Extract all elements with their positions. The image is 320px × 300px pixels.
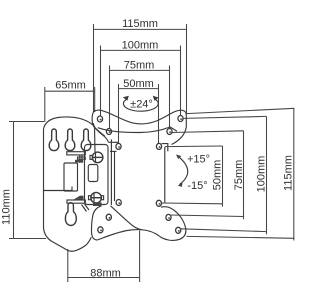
svg-text:-15°: -15° [187, 180, 207, 192]
svg-text:110mm: 110mm [1, 189, 13, 225]
svg-text:100mm: 100mm [255, 156, 267, 193]
svg-text:115mm: 115mm [122, 18, 158, 30]
svg-text:88mm: 88mm [90, 267, 121, 279]
svg-text:75mm: 75mm [233, 160, 245, 191]
svg-text:115mm: 115mm [282, 155, 294, 191]
svg-text:+15°: +15° [187, 154, 210, 166]
svg-text:100mm: 100mm [122, 39, 159, 51]
svg-text:65mm: 65mm [55, 80, 86, 92]
svg-text:±24°: ±24° [130, 98, 153, 110]
svg-text:75mm: 75mm [124, 59, 155, 71]
svg-text:50mm: 50mm [123, 78, 154, 90]
svg-text:50mm: 50mm [211, 160, 223, 191]
